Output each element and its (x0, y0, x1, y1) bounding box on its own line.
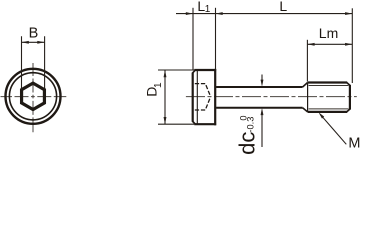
head right face (214, 69, 216, 125)
svg-text:B: B (29, 26, 39, 42)
dc lower leg (261, 115, 263, 147)
L right extension line (351, 8, 353, 83)
hex socket (22, 83, 45, 109)
head chamfer line (196, 71, 198, 124)
head chamfer circle (9, 73, 56, 120)
dimension B line (22, 41, 45, 43)
dc dimension upper leg (261, 75, 263, 81)
front view horizontal centerline (1, 96, 67, 98)
hex socket hidden line bottom (195, 97, 211, 110)
head left face (192, 73, 194, 122)
svg-text:L: L (279, 0, 287, 14)
thread OD lines (308, 83, 348, 112)
L and L1 dimension line (176, 13, 352, 15)
Lm dimension line (307, 43, 352, 45)
svg-text:dc: dc (235, 132, 260, 154)
L1 arrow left (186, 12, 193, 15)
svg-text:M: M (348, 135, 360, 151)
side view centerline (186, 96, 357, 98)
svg-text:1: 1 (205, 4, 211, 15)
M leader arrowhead (319, 112, 325, 118)
D1 dimension line (164, 70, 166, 124)
shank lines (216, 87, 303, 108)
D1 extension lines (158, 70, 194, 124)
screw head side view outline (194, 70, 216, 124)
thread end face (349, 85, 351, 110)
Lm arrows (307, 43, 352, 46)
svg-text:1: 1 (153, 82, 164, 88)
head outer circle (6, 69, 61, 124)
thread root lines (309, 86, 349, 109)
thread start vertical (307, 83, 309, 112)
svg-text:-0.3: -0.3 (246, 117, 256, 133)
dimension B extension lines (22, 36, 45, 90)
front view vertical centerline (32, 63, 34, 132)
hex socket hidden line top (195, 84, 211, 97)
L arrow right (345, 12, 352, 15)
transition cone (303, 83, 308, 112)
dc arrow up (261, 108, 264, 115)
dimension B arrows (22, 41, 45, 44)
L1 left extension line (192, 8, 194, 70)
M leader line (320, 114, 346, 144)
D1 arrows (164, 70, 167, 124)
L1/L arrow middle (216, 12, 223, 15)
svg-text:Lm: Lm (319, 25, 338, 41)
L1 right extension line (215, 8, 217, 70)
dc arrow down (261, 80, 264, 87)
thread tip chamfers (347, 83, 351, 112)
head corner chamfers (192, 70, 195, 124)
Lm left extension line (306, 40, 308, 82)
